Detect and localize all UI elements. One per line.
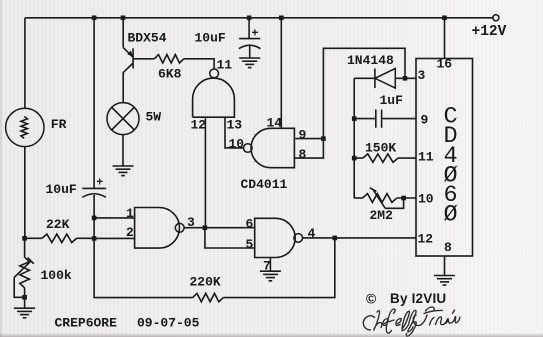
svg-text:13: 13 xyxy=(227,118,243,133)
svg-text:©: © xyxy=(366,291,377,307)
wire pin2 xyxy=(94,237,135,239)
resistor R 150K xyxy=(352,156,357,161)
wire pin12 down xyxy=(204,117,206,228)
resistor R 22K xyxy=(25,237,42,239)
svg-text:22K: 22K xyxy=(46,217,70,232)
wire pin16 from rail xyxy=(442,16,447,21)
svg-text:10: 10 xyxy=(229,137,245,152)
ground pin8-ic xyxy=(434,276,455,286)
svg-text:BDX54: BDX54 xyxy=(128,31,167,46)
svg-text:By I2VIU: By I2VIU xyxy=(390,291,446,306)
svg-text:6K8: 6K8 xyxy=(158,67,182,82)
wire to trimmer xyxy=(24,238,26,257)
wire pin6 xyxy=(205,227,255,229)
node pin2 junction xyxy=(92,236,97,241)
svg-text:14: 14 xyxy=(267,115,283,130)
svg-text:100k: 100k xyxy=(41,268,72,283)
svg-text:6: 6 xyxy=(246,217,254,232)
ground pin7 xyxy=(260,271,281,281)
wire left bus upper xyxy=(24,18,26,108)
svg-text:8: 8 xyxy=(444,240,452,255)
svg-text:1: 1 xyxy=(126,206,134,221)
svg-text:150K: 150K xyxy=(365,141,396,156)
svg-text:12: 12 xyxy=(191,118,207,133)
node diode/top-wire xyxy=(403,76,408,81)
wire left bus lower xyxy=(24,147,26,239)
wire pin7 xyxy=(269,258,271,272)
svg-text:5: 5 xyxy=(246,237,254,252)
wire +12V top rail xyxy=(25,17,493,19)
wire pin5 xyxy=(205,228,255,248)
wire out3 xyxy=(184,227,205,229)
svg-text:4: 4 xyxy=(308,226,316,241)
svg-text:10uF: 10uF xyxy=(46,182,77,197)
terminal +12V xyxy=(493,15,499,21)
svg-text:CREP6ORE: CREP6ORE xyxy=(55,316,118,331)
wire lamp branch from rail xyxy=(121,16,126,21)
wire RC bus xyxy=(353,78,355,198)
svg-text:2M2: 2M2 xyxy=(370,208,394,223)
photoresistor FR xyxy=(6,108,44,146)
capacitor C 10uF (lower) xyxy=(82,187,106,189)
wire pin9 xyxy=(294,138,323,140)
wire pin1 xyxy=(94,217,135,219)
svg-text:10: 10 xyxy=(418,192,434,207)
ground lamp xyxy=(113,166,134,176)
wire pin14 from rail xyxy=(279,16,284,21)
svg-text:1uF: 1uF xyxy=(380,93,404,108)
wire out4 to IC pin12 xyxy=(303,237,417,239)
node pin1 junction xyxy=(92,216,97,221)
wire mid bus from rail xyxy=(92,16,97,21)
svg-text:CD4011: CD4011 xyxy=(241,177,288,192)
svg-text:+: + xyxy=(252,28,259,41)
node out3 junction xyxy=(203,225,208,230)
node pin9 bus xyxy=(321,136,326,141)
node trimmer bottom xyxy=(22,295,27,300)
trimmer R 2M2 xyxy=(354,197,362,199)
trimmer R 100k xyxy=(20,257,30,288)
svg-text:10uF: 10uF xyxy=(195,31,226,46)
IC U2 CD4060 xyxy=(416,59,473,257)
svg-text:5W: 5W xyxy=(146,109,162,124)
svg-text:8: 8 xyxy=(299,147,307,162)
wire pin8 to ground xyxy=(444,256,446,275)
op NAND gate U1d pins 5,6->4 xyxy=(255,218,295,257)
svg-text:220K: 220K xyxy=(190,275,221,290)
node 22K-left junction xyxy=(22,236,27,241)
svg-text:+12V: +12V xyxy=(472,24,507,40)
svg-text:+: + xyxy=(96,177,103,190)
capacitor C 10uF (top) xyxy=(247,16,252,21)
signature xyxy=(363,307,460,336)
wire right bus up xyxy=(323,48,405,158)
svg-text:12: 12 xyxy=(418,232,434,247)
wire mid bus lower xyxy=(94,195,193,298)
op NAND gate U1a pins 12,13->11 xyxy=(210,69,219,78)
wire pin13 to pin10 xyxy=(225,117,244,148)
svg-text:3: 3 xyxy=(418,68,426,83)
resistor R 220K xyxy=(193,293,224,301)
capacitor C 1uF xyxy=(352,116,357,121)
wire pin8 xyxy=(294,157,324,159)
ground cap10uF xyxy=(239,58,260,68)
svg-text:9: 9 xyxy=(299,128,307,143)
transistor Q BDX54 xyxy=(123,48,133,58)
node 2M2 out xyxy=(401,196,406,201)
op NAND gate U1b pins 1,2->3 xyxy=(135,208,180,249)
node out4/220K xyxy=(333,236,338,241)
svg-text:Ø: Ø xyxy=(444,202,458,229)
svg-text:1N4148: 1N4148 xyxy=(347,53,394,68)
svg-text:11: 11 xyxy=(418,150,434,165)
svg-text:FR: FR xyxy=(51,117,67,132)
ground left xyxy=(14,308,35,318)
svg-text:9: 9 xyxy=(421,113,429,128)
svg-text:16: 16 xyxy=(437,57,453,72)
resistor R 6K8 xyxy=(133,58,154,60)
svg-text:09-07-05: 09-07-05 xyxy=(137,316,200,331)
lamp 5W xyxy=(107,103,139,135)
svg-text:11: 11 xyxy=(217,58,233,73)
